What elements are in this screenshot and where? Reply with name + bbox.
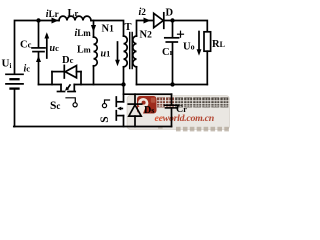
svg-text:T: T: [125, 22, 132, 33]
plus sign for output polarity: [178, 31, 184, 37]
svg-text:Lm: Lm: [77, 44, 91, 55]
svg-text:Lr: Lr: [68, 8, 79, 19]
battery U plates: [6, 74, 23, 88]
svg-text:Dc: Dc: [62, 55, 74, 66]
diode Ds: [128, 104, 141, 116]
svg-text:i2: i2: [139, 7, 147, 18]
switch Sc arrow: [65, 85, 70, 91]
svg-text:RL: RL: [212, 39, 225, 50]
transformer secondary winding N2: [133, 36, 137, 67]
svg-text:iLm: iLm: [75, 28, 92, 39]
diode Ds branch lower lead: [134, 116, 136, 126]
switch Sc lever glyph: [66, 98, 77, 107]
wire: secondary bottom lead: [136, 67, 138, 85]
transformer primary winding N1: [124, 36, 128, 67]
diode Dc branch right stub: [80, 72, 82, 85]
svg-text:S: S: [99, 116, 111, 122]
svg-text:N1: N1: [102, 24, 115, 35]
wire: Lm bottom to clamp rail: [93, 66, 95, 85]
capacitor Cc lower lead: [38, 52, 40, 85]
capacitor Cr upper lead: [171, 94, 173, 105]
wire: top rail Lr to primary corner: [91, 21, 124, 37]
wire: primary bottom to S: [123, 67, 125, 102]
inductor Lr: [59, 16, 91, 20]
svg-text:iLr: iLr: [46, 9, 59, 20]
capacitor Cr lower lead: [171, 108, 173, 126]
svg-text:Ui: Ui: [2, 58, 12, 71]
resistor RL: [204, 32, 211, 51]
watermark text row1 (Chinese: blob glyphs): [157, 97, 231, 107]
node B junction dot (clamp rail / primary bottom): [121, 82, 125, 86]
svg-text:Cc: Cc: [20, 40, 32, 51]
diode Dc: [52, 65, 81, 78]
current arrow ic: [36, 56, 41, 62]
wire: secondary top lead: [137, 21, 154, 37]
capacitor Cr plates: [165, 105, 179, 108]
capacitor Cc upper lead: [38, 21, 40, 48]
transformer core: [130, 33, 133, 69]
wire: diode D to output corner: [164, 21, 208, 32]
capacitor Cf upper lead: [172, 21, 174, 38]
diode D: [154, 13, 164, 28]
diode Ds branch upper lead: [134, 94, 136, 104]
node C junction dot (output cap tap): [170, 18, 174, 22]
svg-text:ic: ic: [24, 64, 31, 75]
capacitor Cf plates: [165, 38, 179, 42]
switch S (main) terminals: [116, 97, 123, 127]
current arrow iLm: [91, 25, 96, 32]
svg-text:Cr: Cr: [176, 104, 187, 115]
switch Sc terminals: [58, 85, 76, 92]
watermark background box: [127, 96, 230, 130]
wire: output bottom rail: [137, 84, 208, 86]
svg-text:Uo: Uo: [183, 42, 195, 53]
capacitor Cc plates: [32, 47, 45, 49]
label S with switch glyph: [99, 116, 111, 122]
node D junction dot (output rail): [170, 82, 174, 86]
wire: snubber box top: [124, 93, 172, 95]
watermark logo (red square): [137, 96, 157, 114]
watermark text row3 (faint slogan): [158, 127, 229, 132]
node A junction dot (Cc tap): [36, 18, 40, 22]
svg-text:D: D: [166, 8, 174, 19]
switch S arrow: [117, 107, 122, 111]
voltage arrow Uo: [197, 32, 202, 56]
svg-text:N2: N2: [140, 30, 153, 41]
wire: clamp rail right: [74, 84, 123, 86]
svg-text:Ds: Ds: [144, 105, 154, 116]
svg-text:uc: uc: [50, 43, 60, 54]
current arrow iLr: [52, 18, 59, 24]
wire: battery positive lead to top rail: [15, 21, 60, 74]
voltage arrow uc: [44, 32, 49, 58]
current arrow i2: [144, 18, 151, 24]
wire: clamp rail left: [39, 84, 62, 86]
voltage arrow u1: [115, 42, 120, 66]
svg-text:Sc: Sc: [50, 100, 60, 112]
capacitor Cf lower lead: [172, 43, 174, 85]
inductor Lm (magnetizing): [94, 37, 98, 66]
wire: battery negative lead: [14, 89, 16, 127]
wire: RL lower lead: [206, 51, 208, 84]
svg-text:eeworld.com.cn: eeworld.com.cn: [155, 113, 215, 124]
wire: bottom rail: [14, 126, 172, 128]
wire: Lm tap: [93, 21, 95, 38]
switch S lever glyph: [102, 100, 109, 108]
svg-text:u1: u1: [101, 49, 111, 60]
diode Dc branch left stub: [51, 72, 53, 85]
